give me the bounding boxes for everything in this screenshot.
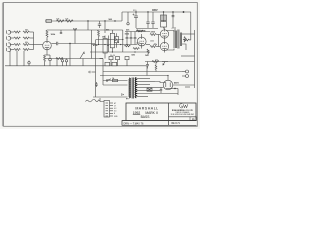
resistor R1 68k [14,31,20,33]
potentiometer wiper arrow [80,52,84,59]
svg-text:68k: 68k [25,29,28,31]
node H junction [98,44,99,45]
svg-text:6.3: 6.3 [114,111,116,113]
wire heater row [100,75,168,77]
resistor R33 dropper box [161,21,167,29]
svg-text:465V: 465V [152,9,158,12]
strip top line [122,120,197,122]
potentiometer VR1 volume [103,39,109,54]
wire cap to ground [49,64,51,66]
resistor R32 screen [137,30,143,32]
wire to bus [30,31,34,33]
resistor R11 [56,58,63,60]
node S junction [122,39,123,40]
wire 470k vertical [91,30,93,59]
transformer T2 core [178,30,179,49]
wire secondary tap 6 [136,93,178,95]
op V5 power tube KT88 [160,40,168,53]
ground symbol mid [89,71,96,73]
node R junction [120,44,121,45]
resistor R21 tone slope [133,48,139,50]
issue box [190,117,197,121]
capacitor C11 bright [60,30,62,34]
wire rect plate 1 [150,81,155,83]
resistor R7 [14,49,20,51]
wire secondary tap 1 [136,78,150,80]
fuse F2 [113,79,118,81]
transformer T1 secondary winding [135,78,136,99]
wire secondary tap 3 [136,84,150,86]
transformer T2 secondary [180,33,181,47]
wire PI bias vertical [158,35,160,47]
svg-text:1A: 1A [192,118,195,121]
resistor R3 [14,37,20,39]
node Q junction [112,51,113,52]
wire pt link [93,96,128,98]
svg-text:HT: HT [114,103,116,105]
wire cathode tee [45,54,51,56]
resistor R13 grid upper [150,34,156,36]
node P junction [104,44,105,45]
transformer T1 core [132,78,133,99]
capacitor C23 filter [151,12,154,28]
title block outer box [126,103,196,121]
capacitor C6 bias [109,57,113,66]
wire after coupling cap [58,43,95,45]
choke L1 [161,12,167,21]
op V6 rectifier GZ34 [163,80,173,90]
wire mid line [92,44,138,46]
svg-text:E: E [114,113,115,115]
wire to bus [30,49,34,51]
switch S1 mains [106,79,111,81]
capacitor C18 plates [172,16,175,17]
fuse F1 [46,20,52,23]
wire secondary tap 4 [136,87,150,89]
ground tick 3 [82,59,84,66]
wire connector feed [100,98,104,102]
wire feedback row [145,61,195,63]
wire pot2 bottom [111,48,113,52]
wire V4 anode to OT [166,31,174,33]
wire drop right feed [172,12,174,28]
resistor R14 grid lower [150,46,156,48]
resistor R6 [23,44,29,46]
wire secondary tap 5 [136,90,150,92]
op V1 tube ECC83 [43,39,52,49]
ground bus [5,65,147,67]
wire heater row b [103,71,182,73]
wire V1 anode out [51,43,56,45]
wire pot1 bottom [104,53,106,59]
capacitor C1 cathode bypass [49,55,52,64]
title bottom strip [122,121,197,126]
resistor R22 mixer [125,45,131,47]
wire rect plate 1b [155,82,166,83]
wire to upper power tube [157,34,161,36]
wire heater bottom [150,90,160,92]
wire stage bus [122,30,124,52]
node E junction [69,43,70,44]
wire plate distribution [47,29,105,31]
resistor R20 feedback [183,39,189,41]
title block divider [168,103,170,125]
logo GW mark [179,104,187,108]
capacitor C10 presence [146,62,149,69]
capacitor C12 decouple [61,59,63,66]
op V3 tube phase inverter [137,34,146,49]
jack J4 [7,48,14,52]
wire riser to upper rail [121,12,123,21]
wire grid feed to V1 [34,44,43,46]
wire HT rail lower [45,20,122,22]
wire to bus [30,37,34,39]
svg-text:RE 8-71: RE 8-71 [172,123,181,125]
transformer T2 output primary [174,31,177,49]
wire pot2 top [111,30,113,33]
resistor R16 tail [147,49,149,56]
wire OT centre tap [174,27,176,31]
svg-text:MARSHALL: MARSHALL [135,106,158,110]
wire feedback vertical right [194,30,196,88]
ground tick 2 [69,59,71,66]
wire heater stub [185,86,190,88]
connector P1 pin labels [114,103,118,118]
wire secondary tap 2 [136,81,150,83]
capacitor C13 decouple [65,59,67,66]
capacitor C7 bias [116,57,120,66]
wire tone stack top [125,31,150,33]
resistor R9 plate V1 [46,30,48,40]
resistor R19 dropper [98,30,100,45]
resistor R4 [23,37,29,39]
wire low line [90,51,150,53]
wire mains line 1 [103,80,128,82]
svg-text:BASS: BASS [141,115,151,119]
potentiometer VR3 presence [162,62,168,66]
wire cathode down [46,50,48,55]
capacitor C14 heater [160,88,162,94]
wire to bus [30,44,34,46]
fuse F3 HT [147,88,152,91]
signature note [86,99,101,102]
plus mark C21 [133,14,135,16]
node M junction [147,11,148,12]
wire OT secondary out [182,33,195,35]
wire drop to V2 plate feed [87,21,89,30]
transformer T1 mains primary winding [129,78,130,98]
svg-text:68k: 68k [25,42,28,44]
capacitor C9 hum [95,82,98,87]
resistor R2 68k [23,31,29,33]
wire jack ground drop 1 [9,51,11,66]
wire drop to pots feed [104,21,106,33]
ground tick 1 [56,59,58,66]
svg-text:DRN — T.MAY 76: DRN — T.MAY 76 [124,122,144,125]
node K junction [183,11,185,13]
capacitor C19 input ground [28,61,30,66]
svg-text:ROSE-MORRIS & CO. LTD: ROSE-MORRIS & CO. LTD [172,110,194,112]
resistor R23 presence leg [155,65,157,72]
wire rect plate 2 [150,87,163,89]
resistor R5 [14,44,20,46]
jack J2 [7,36,14,40]
wire bias corner down [146,66,148,76]
jack J3 [7,43,14,47]
connector P1 [104,101,110,118]
node B junction [87,20,88,21]
jack J5 speaker [182,70,189,78]
node J junction [114,20,115,21]
resistor R30 smoothing [57,20,65,22]
op V4 power tube KT88 [160,28,168,41]
svg-text:50+50: 50+50 [110,55,115,57]
wire mixer vertical [108,36,110,53]
capacitor C3 tone [126,32,129,45]
capacitor C16 electrolytic [105,62,110,66]
resistor R15 presence [152,61,159,63]
capacitor C8 bias [125,57,129,66]
wire lower signal line [45,58,103,60]
wire jack ground drop 2 [16,51,18,66]
switch SW1 boost [115,33,119,48]
wire V2 plate feed [105,29,123,31]
svg-text:1M: 1M [102,37,105,39]
capacitor C5 tone [134,32,137,45]
node N junction [163,11,164,12]
svg-text:25k: 25k [155,59,158,61]
resistor R18 load [184,37,186,43]
svg-text:0.1µ 100k: 0.1µ 100k [136,31,147,33]
wire input bus vertical [33,32,35,50]
node F junction [126,44,127,45]
logo cell divider [169,116,197,118]
capacitor C2 coupling [57,42,58,45]
svg-text:2×: 2× [121,93,124,97]
svg-text:100k: 100k [150,41,154,43]
resistor R8 [23,49,29,51]
wire secondary low [182,44,186,50]
capacitor C17 electrolytic [112,62,117,66]
connector P1 pin leads [110,103,114,116]
capacitor C20 filter [98,21,101,28]
wire bus drop to PT [95,66,97,97]
wire drop to lower line [69,44,71,59]
capacitor C21 filter [134,12,138,28]
wire drop far right [190,12,192,40]
capacitor C4 tone [130,32,133,45]
wire impedance link [181,55,195,57]
potentiometer VR2 volume 2 [110,33,116,48]
lamp LP1 pilot [170,88,178,95]
wire HT rail upper [122,11,191,13]
wire rect output up [167,76,169,81]
underline 1992 [133,114,140,116]
wire mid line b [146,44,150,46]
capacitor C22 filter [146,12,149,28]
wire grid row [96,39,123,41]
svg-text:6.3: 6.3 [114,108,116,110]
node G junction [134,51,135,52]
wire bias feed [100,58,104,60]
capacitor C15 screen [127,12,129,25]
node A junction [74,29,75,30]
wire screen join [136,28,158,30]
wire pot1 top [104,36,106,39]
node C junction [104,20,105,21]
wire left drop [102,59,104,86]
wire secondary tap 7 [136,96,148,98]
wire to lower power tube [157,46,161,48]
resistor R10 cathode [44,55,46,64]
node T junction [167,75,168,76]
node L junction [135,11,136,12]
svg-text:1992: 1992 [133,111,141,115]
node D junction [172,11,173,12]
wire cathode to ground [44,64,46,66]
wire rect to right [173,84,195,86]
wire riser left [95,40,97,66]
wire fb join [190,39,191,41]
wire V5 anode to OT [166,49,174,51]
wire mains line 2 [103,84,128,86]
resistor R31 smoothing [66,20,74,22]
wire presence leg top [155,62,157,65]
wire jack ground drop 3 [23,51,25,66]
svg-text:CT: CT [114,105,116,107]
jack J1 [7,30,14,34]
svg-text:465V: 465V [174,82,179,85]
wire drop plate b [74,30,76,44]
